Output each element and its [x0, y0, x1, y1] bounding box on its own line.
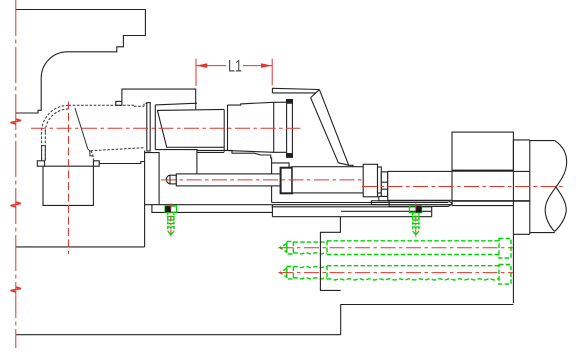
svg-text:L1: L1 — [228, 57, 242, 76]
